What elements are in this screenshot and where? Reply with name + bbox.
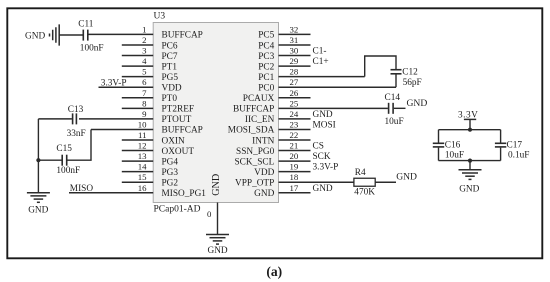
svg-text:21: 21	[290, 141, 299, 151]
svg-text:SSN_PG0: SSN_PG0	[236, 147, 275, 157]
svg-text:3.3V-P: 3.3V-P	[313, 163, 339, 173]
resistor R4	[354, 168, 375, 198]
svg-text:VDD: VDD	[162, 84, 182, 94]
pin 5 (PG5) wire + number	[122, 67, 153, 77]
capacitor C13	[67, 105, 86, 139]
svg-text:OXIN: OXIN	[162, 136, 186, 146]
pin 11 (OXIN) wire + number	[122, 130, 153, 140]
pin 21 (SSN_PG0) wire + number	[279, 141, 311, 151]
pin 13 (PG4) wire + number	[122, 151, 153, 161]
pin 28 (PC1) wire + number	[279, 67, 365, 77]
svg-text:PC4: PC4	[258, 41, 274, 51]
svg-text:2: 2	[142, 35, 146, 45]
svg-text:19: 19	[290, 162, 299, 172]
svg-text:22: 22	[290, 130, 299, 140]
svg-text:10uF: 10uF	[445, 150, 464, 160]
svg-text:VDD: VDD	[254, 168, 274, 178]
svg-text:C16: C16	[445, 141, 461, 151]
svg-text:C15: C15	[56, 144, 72, 154]
svg-text:16: 16	[138, 183, 147, 193]
node junction top rail	[468, 128, 472, 132]
svg-text:11: 11	[138, 130, 146, 140]
svg-text:28: 28	[290, 67, 299, 77]
svg-text:3.3V-P: 3.3V-P	[101, 79, 127, 89]
svg-text:6: 6	[142, 77, 147, 87]
pin 2 (PC6) wire + number	[122, 35, 153, 45]
wire C17 to bottom rail	[500, 148, 502, 161]
svg-text:12: 12	[138, 141, 147, 151]
svg-text:0.1uF: 0.1uF	[508, 150, 529, 160]
svg-text:PG5: PG5	[162, 73, 179, 83]
svg-text:MISO: MISO	[70, 184, 94, 194]
pin 6 (VDD) wire + number	[99, 77, 154, 87]
wire R4 to GND label	[375, 181, 396, 183]
svg-text:0: 0	[207, 209, 212, 219]
pin 24 (IIC_EN) wire + number	[279, 109, 311, 119]
svg-text:PCap01-AD: PCap01-AD	[154, 205, 201, 215]
pin 0 wire (IC bottom GND)	[217, 203, 219, 235]
svg-text:13: 13	[138, 151, 147, 161]
svg-text:GND: GND	[28, 205, 48, 215]
svg-text:C13: C13	[68, 105, 84, 115]
svg-text:4: 4	[142, 56, 147, 66]
wire bottom rail C16/C17	[439, 160, 501, 162]
svg-text:PCAUX: PCAUX	[243, 94, 275, 104]
svg-text:GND: GND	[313, 110, 333, 120]
svg-text:PC3: PC3	[258, 52, 274, 62]
wire vertical bus left (C13/C15 to ground)	[37, 119, 39, 193]
pin 12 (OXOUT) wire + number	[122, 141, 153, 151]
svg-text:SCK_SCL: SCK_SCL	[235, 157, 275, 167]
wire bottom rail to ground	[469, 161, 471, 170]
ground GND (rotated, left of C11)	[25, 24, 59, 45]
svg-text:BUFFCAP: BUFFCAP	[233, 105, 274, 115]
pin 4 (PT1) wire + number	[122, 56, 153, 66]
ground power block	[459, 170, 482, 195]
pin 7 (PT0) wire + number	[122, 88, 153, 98]
svg-text:32: 32	[290, 24, 299, 34]
svg-text:8: 8	[142, 98, 147, 108]
svg-text:MOSI: MOSI	[313, 120, 336, 130]
svg-text:56pF: 56pF	[403, 78, 422, 88]
svg-text:C17: C17	[507, 141, 523, 151]
svg-text:25: 25	[290, 98, 299, 108]
wire GND to C11	[59, 34, 82, 36]
ground left (C13/C15)	[27, 193, 50, 216]
svg-text:SCK: SCK	[313, 152, 331, 162]
svg-text:BUFFCAP: BUFFCAP	[162, 31, 203, 41]
pin 27 (PC0) wire + number	[279, 77, 397, 87]
svg-text:10: 10	[138, 119, 147, 129]
wire C14 to GND label	[394, 107, 406, 109]
svg-text:GND: GND	[313, 184, 333, 194]
svg-text:33nF: 33nF	[67, 129, 86, 139]
svg-text:CS: CS	[313, 142, 324, 152]
capacitor C11	[78, 19, 103, 53]
wire C16 left branch	[438, 130, 440, 143]
pin 1 (BUFFCAP) wire + number	[89, 24, 154, 34]
pin 29 (PC2) wire + number	[279, 56, 311, 66]
svg-text:OXOUT: OXOUT	[162, 147, 195, 157]
svg-text:C1-: C1-	[313, 47, 327, 57]
pin 26 (PCAUX) wire + number	[279, 88, 311, 98]
svg-text:14: 14	[138, 162, 147, 172]
svg-text:10uF: 10uF	[385, 117, 404, 127]
ground bottom (IC GND pin)	[206, 235, 229, 256]
svg-text:100nF: 100nF	[80, 44, 104, 54]
pin 14 (PG3) wire + number	[122, 162, 153, 172]
svg-text:17: 17	[290, 183, 299, 193]
svg-text:18: 18	[290, 172, 299, 182]
svg-text:R4: R4	[355, 168, 366, 178]
svg-text:30: 30	[290, 46, 299, 56]
svg-text:PT2REF: PT2REF	[162, 105, 195, 115]
pin 16 (MISO_PG1) wire + number	[69, 183, 153, 193]
pin 3 (PC7) wire + number	[122, 46, 153, 56]
svg-text:C12: C12	[402, 68, 418, 78]
svg-text:1: 1	[142, 24, 146, 34]
svg-text:26: 26	[290, 88, 299, 98]
svg-text:C14: C14	[385, 93, 401, 103]
svg-text:C11: C11	[78, 19, 94, 29]
pin 31 (PC4) wire + number	[279, 35, 311, 45]
pin 20 (SCK_SCL) wire + number	[279, 151, 311, 161]
pin 15 (PG2) wire + number	[122, 172, 153, 182]
pin 30 (PC3) wire + number	[279, 46, 311, 56]
svg-text:INTN: INTN	[252, 136, 274, 146]
svg-text:GND: GND	[25, 32, 45, 42]
capacitor C12	[391, 68, 422, 88]
svg-text:9: 9	[142, 109, 147, 119]
svg-text:(a): (a)	[266, 264, 282, 280]
svg-text:GND: GND	[396, 172, 417, 183]
pin 22 (INTN) wire + number	[279, 130, 311, 140]
IC U3 body	[153, 23, 278, 203]
pin 25 (BUFFCAP) wire + number	[279, 98, 388, 108]
svg-text:GND: GND	[407, 98, 428, 109]
svg-text:15: 15	[138, 172, 147, 182]
svg-text:U3: U3	[154, 12, 166, 22]
svg-text:PG3: PG3	[162, 168, 179, 178]
svg-text:PC7: PC7	[162, 52, 178, 62]
svg-text:PC2: PC2	[258, 62, 274, 72]
svg-text:PG4: PG4	[162, 157, 179, 167]
svg-text:3: 3	[142, 46, 147, 56]
wire C13 row	[38, 118, 72, 120]
svg-text:20: 20	[290, 151, 299, 161]
svg-text:PC6: PC6	[162, 41, 178, 51]
capacitor C14	[385, 93, 404, 127]
svg-text:470K: 470K	[354, 187, 375, 197]
wire C17 right branch	[500, 130, 502, 143]
svg-text:VPP_OTP: VPP_OTP	[235, 179, 274, 189]
wire C15 row	[38, 159, 61, 161]
pin 32 (PC5) wire + number	[279, 24, 311, 34]
pin 10 (BUFFCAP) wire + number	[91, 119, 153, 129]
wire C12 bottom to pin 27	[395, 74, 397, 87]
capacitor C16	[433, 141, 464, 161]
svg-text:5: 5	[142, 67, 147, 77]
capacitor C15	[56, 144, 80, 176]
svg-text:31: 31	[290, 35, 299, 45]
node junction bottom rail	[468, 159, 472, 163]
svg-text:7: 7	[142, 88, 147, 98]
svg-text:23: 23	[290, 119, 299, 129]
svg-text:PC1: PC1	[258, 73, 274, 83]
node junction dot C15 tap	[36, 158, 40, 162]
power 3.3V	[458, 110, 478, 129]
svg-text:C1+: C1+	[313, 57, 329, 67]
pin 17 (GND) wire + number	[279, 183, 311, 193]
svg-text:BUFFCAP: BUFFCAP	[162, 126, 203, 136]
svg-text:PC5: PC5	[258, 31, 274, 41]
pin 18 (VPP_OTP) wire + number	[279, 172, 354, 182]
svg-text:GND: GND	[459, 184, 479, 194]
pin 23 (MOSI_SDA) wire + number	[279, 119, 311, 129]
wire C16 to bottom rail	[438, 148, 440, 161]
svg-text:PTOUT: PTOUT	[162, 115, 192, 125]
svg-text:MISO_PG1: MISO_PG1	[162, 189, 207, 199]
svg-text:24: 24	[290, 109, 299, 119]
pin 8 (PT2REF) wire + number	[122, 98, 153, 108]
svg-text:100nF: 100nF	[56, 166, 80, 176]
wire top rail C16/C17	[439, 129, 501, 131]
svg-text:GND: GND	[211, 174, 222, 196]
svg-text:29: 29	[290, 56, 299, 66]
svg-text:27: 27	[290, 77, 299, 87]
svg-text:PG2: PG2	[162, 179, 179, 189]
svg-text:GND: GND	[254, 189, 274, 199]
svg-text:PT0: PT0	[162, 94, 178, 104]
svg-text:GND: GND	[208, 246, 228, 256]
svg-text:MOSI_SDA: MOSI_SDA	[228, 126, 275, 136]
pin 19 (VDD) wire + number	[279, 162, 311, 172]
wire pin 28 riser to C12 top	[365, 56, 396, 77]
svg-text:IIC_EN: IIC_EN	[245, 115, 275, 125]
pin 9 (PTOUT) wire + number	[79, 109, 153, 119]
capacitor C17	[495, 141, 530, 161]
wire C15 to pin 10 riser	[67, 129, 91, 160]
svg-text:PT1: PT1	[162, 62, 178, 72]
svg-text:PC0: PC0	[258, 84, 274, 94]
